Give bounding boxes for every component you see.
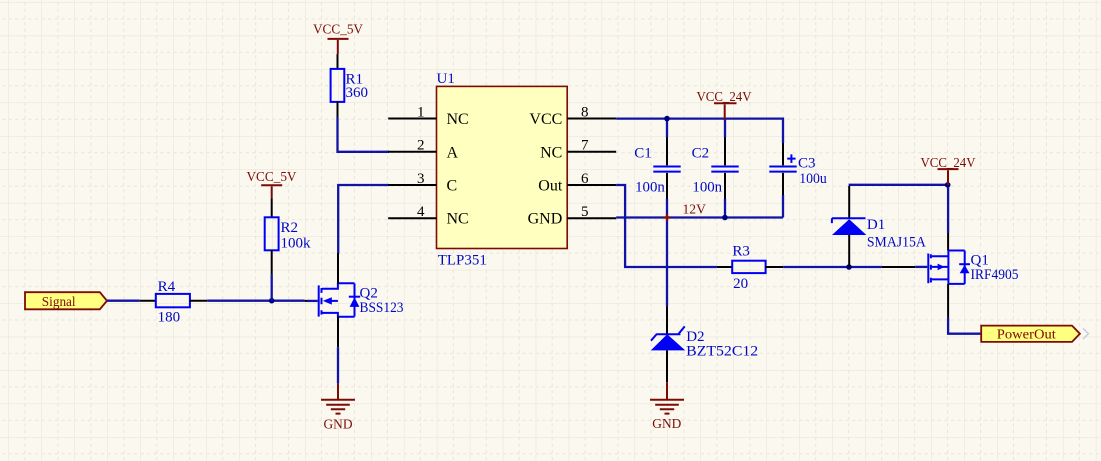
pin 5: [567, 217, 616, 219]
wire D2 tap down: [666, 218, 668, 306]
gate bar: [927, 254, 929, 284]
wire R3 to Q1 gate: [783, 266, 882, 268]
port Signal: [25, 292, 107, 310]
svg-text:SMAJ15A: SMAJ15A: [867, 235, 926, 251]
capacitor C1: [634, 137, 680, 199]
channel dashes: [930, 254, 932, 282]
junction on bottom net at C2: [722, 215, 728, 221]
svg-text:100k: 100k: [281, 236, 312, 252]
svg-text:BSS123: BSS123: [360, 300, 404, 316]
wire R2 to gate net: [271, 275, 273, 301]
junction at D1: [846, 264, 852, 270]
polarity plus: [787, 154, 795, 163]
svg-text:GND: GND: [528, 211, 563, 228]
svg-text:100n: 100n: [635, 179, 665, 195]
svg-text:12V: 12V: [683, 203, 706, 218]
pin 2: [388, 151, 436, 153]
transistor Q1 IRF4905: [915, 233, 1018, 318]
pin 1: [388, 118, 436, 120]
svg-text:NC: NC: [447, 111, 469, 128]
gate bar: [318, 285, 320, 316]
svg-text:1: 1: [417, 104, 425, 120]
wire U1 pin 3 to Q2 drain: [338, 185, 389, 254]
bottom arm: [932, 278, 949, 280]
mid arm with arrow: [932, 266, 949, 268]
svg-text:Signal: Signal: [42, 295, 76, 310]
svg-text:U1: U1: [437, 71, 455, 87]
power flag VCC_24V (top): [697, 90, 752, 121]
wire bottom 12V net: [616, 216, 783, 218]
ground GND (middle): [650, 382, 684, 432]
wire C3 bottom: [782, 195, 784, 218]
pin 8: [567, 118, 616, 120]
port PowerOut: [981, 326, 1088, 343]
wire U1 pin 6 to R3: [616, 185, 717, 267]
wire Q1 to PowerOut: [948, 318, 981, 334]
svg-text:C: C: [447, 178, 458, 195]
svg-text:GND: GND: [652, 417, 681, 432]
source arm: [322, 313, 355, 317]
manual junction (red cross) at D2 tap: [664, 214, 671, 221]
svg-text:20: 20: [733, 276, 748, 292]
svg-text:R3: R3: [732, 244, 750, 260]
svg-text:100u: 100u: [799, 171, 827, 187]
svg-text:VCC_5V: VCC_5V: [247, 170, 297, 185]
resistor R1: [331, 54, 368, 119]
drain arm: [322, 283, 355, 289]
svg-text:C2: C2: [692, 146, 710, 162]
top arm: [932, 255, 949, 257]
diode D1 SMAJ15A (TVS): [832, 186, 926, 267]
junction on top net at C1: [664, 116, 670, 122]
transistor Q2 BSS123: [305, 253, 404, 347]
right vertical: [354, 283, 356, 316]
body diode: [959, 263, 970, 265]
wire C2 top: [724, 119, 726, 137]
source pin down: [947, 284, 949, 318]
svg-text:8: 8: [581, 104, 589, 120]
wire Signal to R4: [107, 300, 140, 302]
resistor R2: [265, 198, 311, 274]
svg-text:5: 5: [581, 204, 589, 220]
capacitor C3 (electrolytic): [769, 143, 827, 195]
drain pin: [337, 253, 339, 283]
power flag VCC_24V (right): [921, 156, 976, 185]
wire R1 to U1 pin 2: [338, 117, 390, 152]
svg-text:GND: GND: [324, 417, 353, 432]
svg-text:180: 180: [158, 310, 181, 326]
ground GND (left): [321, 383, 355, 432]
power flag VCC_5V (top): [313, 23, 363, 54]
resistor R4: [140, 279, 207, 326]
capacitor C2: [692, 137, 739, 199]
inner vertical: [947, 251, 949, 284]
svg-text:VCC: VCC: [529, 111, 562, 128]
op-to-coupler U1 TLP351: [388, 71, 616, 269]
outer rectangle: [948, 251, 964, 284]
svg-text:3: 3: [417, 171, 425, 187]
svg-text:NC: NC: [540, 144, 562, 161]
pin 3: [388, 184, 436, 186]
svg-text:C3: C3: [798, 155, 816, 171]
wire U1 pin 8 top net: [616, 119, 783, 143]
svg-text:100n: 100n: [692, 179, 722, 195]
svg-text:6: 6: [581, 171, 589, 187]
svg-text:7: 7: [581, 138, 589, 154]
svg-text:2: 2: [417, 138, 425, 154]
svg-text:BZT52C12: BZT52C12: [686, 343, 758, 359]
junction at Q1 top: [945, 182, 951, 188]
pin wire Q1 gate (black): [882, 266, 915, 268]
body diode: [349, 296, 360, 298]
svg-text:4: 4: [417, 204, 425, 220]
power flag VCC_5V (above R2): [247, 170, 297, 198]
wire VCC to Q1: [947, 187, 949, 233]
svg-text:IRF4905: IRF4905: [971, 267, 1019, 283]
svg-text:PowerOut: PowerOut: [997, 327, 1056, 342]
svg-text:D1: D1: [867, 217, 885, 233]
svg-text:VCC_5V: VCC_5V: [313, 23, 363, 38]
wire C1 bottom: [666, 199, 668, 218]
svg-text:360: 360: [346, 85, 369, 101]
pin 7: [567, 151, 616, 153]
svg-text:NC: NC: [447, 211, 469, 228]
pin 6: [567, 184, 616, 186]
wire C1 top: [666, 119, 668, 137]
svg-text:Out: Out: [538, 178, 563, 195]
channel dashes: [321, 288, 323, 315]
resistor R3: [717, 244, 783, 293]
diode D2 BZT52C12 (zener): [651, 306, 758, 382]
pin 4: [388, 217, 436, 219]
svg-text:A: A: [447, 144, 459, 161]
body arm with arrow: [330, 300, 338, 302]
wire VCC_24V to D1/Q1 top: [849, 184, 948, 186]
wire C2 bottom: [724, 199, 726, 218]
wire Q2 source to GND: [337, 347, 339, 383]
svg-text:TLP351: TLP351: [438, 253, 487, 269]
svg-text:R4: R4: [158, 279, 176, 295]
junction at R2: [269, 298, 275, 304]
svg-text:R2: R2: [281, 220, 299, 236]
wire R4 to Q2 gate: [207, 300, 304, 302]
svg-text:C1: C1: [634, 146, 652, 162]
source pin: [337, 317, 339, 348]
